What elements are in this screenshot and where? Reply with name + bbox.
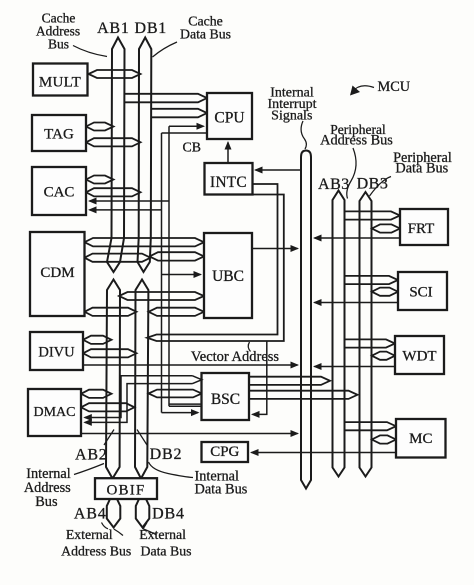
svg-text:Address Bus: Address Bus: [320, 132, 393, 148]
svg-text:CB: CB: [183, 140, 201, 155]
svg-text:FRT: FRT: [408, 221, 435, 237]
svg-text:Data Bus: Data Bus: [395, 161, 448, 177]
svg-text:Vector Address: Vector Address: [191, 349, 280, 365]
svg-text:AB1: AB1: [97, 20, 130, 37]
svg-text:DB1: DB1: [134, 20, 167, 37]
svg-text:AB4: AB4: [74, 506, 107, 523]
svg-text:TAG: TAG: [44, 127, 74, 143]
svg-text:BSC: BSC: [211, 391, 240, 408]
svg-text:MCU: MCU: [378, 79, 411, 95]
svg-text:Signals: Signals: [271, 108, 312, 123]
svg-text:CDM: CDM: [40, 265, 74, 281]
svg-text:Bus: Bus: [35, 494, 58, 510]
svg-text:Bus: Bus: [48, 37, 69, 52]
svg-text:AB2: AB2: [75, 447, 108, 464]
svg-text:AB3: AB3: [318, 176, 350, 193]
svg-text:DB2: DB2: [150, 446, 183, 463]
svg-text:CAC: CAC: [44, 185, 75, 201]
svg-text:INTC: INTC: [210, 174, 247, 191]
svg-text:WDT: WDT: [402, 349, 436, 365]
svg-text:CPU: CPU: [214, 110, 244, 127]
svg-text:DMAC: DMAC: [33, 405, 75, 420]
svg-text:Data Bus: Data Bus: [195, 482, 248, 498]
svg-text:Data Bus: Data Bus: [141, 544, 192, 559]
svg-text:MULT: MULT: [39, 74, 81, 90]
svg-text:Data Bus: Data Bus: [180, 27, 231, 42]
svg-text:External: External: [66, 527, 113, 542]
svg-text:MC: MC: [409, 431, 432, 447]
svg-text:UBC: UBC: [212, 268, 244, 285]
svg-text:DB4: DB4: [152, 506, 185, 523]
svg-text:External: External: [139, 527, 186, 542]
svg-text:Address Bus: Address Bus: [61, 544, 131, 559]
svg-text:CPG: CPG: [210, 444, 239, 460]
svg-text:DB3: DB3: [357, 176, 389, 193]
svg-text:DIVU: DIVU: [38, 345, 75, 361]
svg-text:OBIF: OBIF: [107, 483, 146, 499]
svg-text:SCI: SCI: [409, 285, 432, 301]
